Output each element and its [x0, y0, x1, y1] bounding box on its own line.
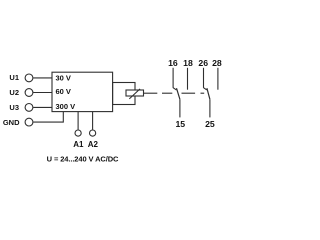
svg-text:A1: A1 [73, 140, 84, 149]
svg-text:U = 24...240 V AC/DC: U = 24...240 V AC/DC [47, 155, 119, 164]
relay coil slash [129, 89, 140, 99]
svg-text:U2: U2 [9, 88, 19, 97]
pin 28 lead [217, 68, 219, 90]
pin 15 lead [179, 99, 181, 117]
wire coil output [144, 92, 158, 94]
wire GND riser to box bottom [62, 112, 64, 123]
contact arm 15-16 [177, 88, 180, 99]
svg-text:U3: U3 [9, 103, 19, 112]
contact arm 25-26 [207, 88, 210, 99]
svg-text:28: 28 [212, 58, 222, 68]
mech link dash [201, 92, 205, 94]
svg-text:15: 15 [175, 119, 185, 129]
svg-text:30 V: 30 V [56, 73, 71, 82]
wire A2 stub [92, 112, 94, 130]
svg-text:A2: A2 [88, 140, 99, 149]
wire A1 stub [77, 112, 79, 130]
wire U2 to box [33, 92, 52, 94]
pin 26 contact hook [204, 88, 207, 90]
svg-text:U1: U1 [9, 73, 19, 82]
svg-text:18: 18 [183, 58, 193, 68]
svg-text:GND: GND [3, 118, 20, 127]
pin 25 lead [209, 99, 211, 117]
coil housing box [113, 83, 135, 105]
terminal U2 [25, 89, 33, 97]
terminal U3 [25, 104, 33, 112]
svg-text:25: 25 [205, 119, 215, 129]
device body box [52, 72, 113, 111]
wire U1 to box [33, 77, 52, 79]
terminal A2 [90, 130, 96, 136]
relay coil K1 [126, 90, 144, 96]
terminal A1 [75, 130, 81, 136]
mech link dash [162, 92, 172, 94]
svg-text:26: 26 [198, 58, 208, 68]
svg-text:60 V: 60 V [56, 87, 71, 96]
mech link dash [182, 92, 196, 94]
pin 16 contact hook [173, 88, 176, 90]
pin 18 lead [187, 68, 189, 90]
svg-text:300 V: 300 V [56, 102, 76, 111]
terminal GND [25, 118, 33, 126]
terminal U1 [25, 74, 33, 82]
pin 16 lead [172, 68, 174, 88]
wire U3 to box [33, 106, 52, 108]
wire GND horizontal [33, 121, 63, 123]
pin 26 lead [203, 68, 205, 88]
svg-text:16: 16 [168, 58, 178, 68]
